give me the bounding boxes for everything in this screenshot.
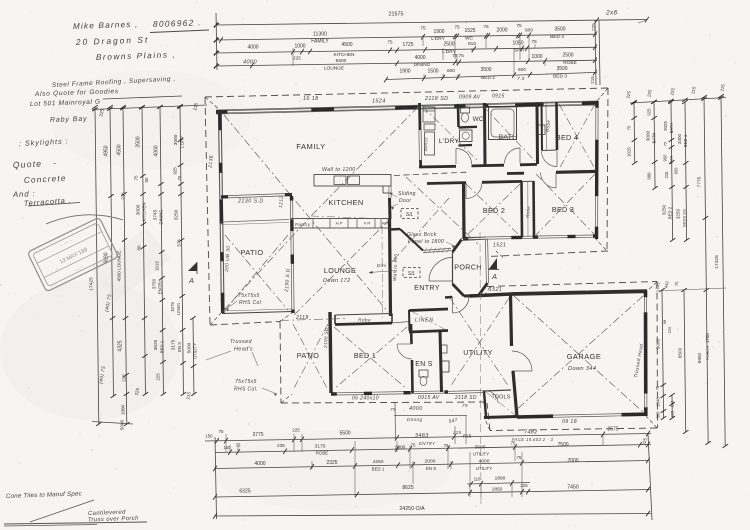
svg-text:LINEN: LINEN — [176, 303, 181, 315]
right band line 3000 bath 900 — [654, 102, 655, 188]
wall hall north - bedroom corridor — [419, 148, 537, 167]
svg-text:215: 215 — [590, 76, 595, 84]
svg-text:3500: 3500 — [136, 136, 142, 147]
svg-text:1025: 1025 — [627, 147, 632, 157]
handwritten owner name and phone — [73, 17, 209, 32]
svg-text:75: 75 — [517, 455, 522, 460]
note 75x75x5 RHS col lower with leader — [234, 379, 277, 396]
room label LOUNGE — [323, 266, 356, 284]
wall garage left lower / tools right — [513, 371, 517, 417]
right band line 7775 6950 — [704, 97, 708, 443]
left band line 17425 overall — [95, 107, 99, 424]
svg-text:1524: 1524 — [372, 99, 386, 105]
svg-text:Head's: Head's — [234, 347, 253, 353]
svg-text:DINING: DINING — [159, 209, 164, 225]
svg-text:235: 235 — [277, 443, 285, 448]
garage side dim line 5000 — [662, 290, 664, 418]
dim row 4000 2325 4250 BED1 2000 ENS 4000 UTILITY 7000 — [215, 461, 649, 469]
svg-text:75: 75 — [454, 25, 460, 31]
svg-text:75: 75 — [420, 26, 426, 32]
svg-text:LINEN: LINEN — [415, 318, 434, 324]
roof diagonals utility — [450, 298, 509, 387]
svg-text:75 75: 75 75 — [452, 53, 464, 58]
svg-text:3500: 3500 — [556, 66, 567, 72]
svg-text:225: 225 — [293, 55, 301, 60]
bed1 door gap line — [392, 322, 410, 324]
beds 2-3 robe — [522, 181, 535, 238]
svg-text:BED 2: BED 2 — [481, 75, 495, 81]
svg-text:600: 600 — [447, 68, 455, 74]
svg-text:1725: 1725 — [402, 42, 413, 48]
roof diagonals bed2 — [466, 184, 520, 236]
svg-text:3175: 3175 — [171, 339, 176, 350]
svg-text:75: 75 — [390, 407, 396, 412]
svg-text:KITCHEN: KITCHEN — [142, 203, 147, 222]
svg-text:75: 75 — [177, 175, 182, 180]
left dimension band — [89, 102, 208, 430]
tools closet — [484, 390, 517, 418]
roof dashed outline - lower patio — [280, 322, 281, 404]
short connector verticals in top band — [422, 35, 424, 46]
patio step edge line — [221, 220, 289, 223]
svg-text:Robe: Robe — [358, 318, 371, 324]
svg-text:EN S: EN S — [177, 342, 182, 352]
glass brick panel wall — [407, 232, 455, 253]
svg-text:1850: 1850 — [492, 487, 503, 493]
left datum of bottom band — [215, 437, 217, 519]
svg-text:BED 1: BED 1 — [354, 351, 376, 360]
wall bath right — [536, 103, 540, 165]
svg-text:4325: 4325 — [118, 340, 124, 351]
svg-text:225: 225 — [520, 483, 528, 488]
patio bottom rail — [222, 312, 292, 314]
wall garage bottom with door opening 0918 — [517, 414, 646, 425]
roof diagonals bath laundry — [422, 106, 535, 161]
svg-text:5500: 5500 — [336, 58, 347, 64]
dim row 6325 8625 1850 225 7450 — [215, 490, 651, 498]
svg-text:4000: 4000 — [154, 145, 160, 156]
svg-text:EN S: EN S — [426, 466, 436, 471]
handwritten cluster above bottom band — [394, 402, 397, 441]
svg-text:BATH: BATH — [669, 123, 674, 134]
section cut line A-A vertical — [480, 232, 481, 508]
svg-text:4950: 4950 — [104, 145, 110, 156]
wall garage right with windows — [644, 291, 648, 297]
bed4 robe — [542, 102, 558, 151]
bath fixtures - vertical tub and basin — [489, 104, 546, 140]
svg-text:2500: 2500 — [562, 53, 573, 59]
svg-text:L'DRY: L'DRY — [180, 136, 185, 148]
svg-text:5000: 5000 — [120, 419, 125, 430]
svg-text:BED 4: BED 4 — [683, 134, 688, 147]
note trussed heads with leader — [206, 339, 258, 366]
svg-text:Panel to 1800: Panel to 1800 — [408, 239, 444, 245]
svg-text:600: 600 — [518, 67, 526, 73]
svg-text:50: 50 — [144, 177, 149, 182]
left band line 4000 dining entry bed1 — [160, 107, 163, 394]
wall bed4-bed3 divider with door — [507, 171, 597, 188]
wall bed2 left — [462, 182, 466, 238]
svg-text:Bench: Bench — [423, 137, 429, 151]
roof dashed outline - garage wing — [487, 282, 657, 287]
svg-text:BED 2: BED 2 — [668, 206, 673, 219]
garage side dim line 6500 — [684, 290, 686, 432]
wall laundry left with sliding door — [390, 103, 422, 210]
svg-text:80: 80 — [137, 245, 142, 251]
wall family-patio with sliding door 2130SD — [221, 194, 292, 225]
wall hall-utility south with door — [445, 296, 471, 313]
svg-text:150: 150 — [205, 434, 213, 439]
svg-text:Wall to 1200: Wall to 1200 — [322, 167, 356, 173]
svg-text:1900: 1900 — [433, 29, 444, 35]
svg-text:4500: 4500 — [117, 144, 123, 155]
svg-text:06 240x10: 06 240x10 — [352, 396, 379, 402]
svg-text:UTILITY: UTILITY — [193, 343, 198, 359]
left band line 3500 kitchen — [142, 107, 145, 394]
kitchen ridge dash — [311, 216, 390, 219]
wall utility top / garage wing top — [470, 294, 511, 296]
svg-text:4000: 4000 — [479, 459, 490, 465]
flourish curve under terracotta — [46, 215, 123, 224]
svg-text:900: 900 — [663, 154, 668, 162]
svg-text:WC: WC — [465, 36, 474, 42]
roof overhang dashed outline - bedroom wing — [205, 88, 658, 431]
svg-text:ENTRY: ENTRY — [419, 441, 436, 446]
svg-text:21575: 21575 — [389, 12, 404, 18]
svg-text:2025: 2025 — [663, 120, 668, 131]
svg-text:BED 4: BED 4 — [550, 34, 564, 40]
svg-text:75x75x5: 75x75x5 — [238, 293, 260, 299]
svg-text:DINING: DINING — [414, 62, 431, 68]
exterior wall right of bedrooms with windows — [595, 101, 598, 239]
svg-text:75: 75 — [627, 125, 632, 130]
svg-text:4000: 4000 — [409, 406, 423, 412]
svg-text:SHR: SHR — [669, 156, 674, 165]
svg-text:1525: 1525 — [464, 28, 475, 34]
svg-text:WC: WC — [473, 116, 484, 123]
kitchen bench row with pantry — [291, 219, 390, 229]
lounge robe band — [295, 314, 392, 325]
dim row 4000 1000 225 1725 2500 L'DRY 915 1050 SHR 75 — [216, 47, 597, 53]
svg-text:Robe: Robe — [545, 119, 551, 132]
wall bed1-ens divider — [397, 324, 413, 393]
bed4 door arc — [542, 151, 558, 167]
svg-text:3750: 3750 — [152, 278, 157, 289]
svg-text:225: 225 — [292, 428, 300, 433]
roof diagonals linen tools — [411, 311, 515, 415]
svg-text:1000: 1000 — [395, 445, 406, 451]
svg-text:1890: 1890 — [495, 476, 506, 482]
svg-text:900: 900 — [647, 172, 652, 180]
svg-text:600: 600 — [525, 27, 533, 33]
dim row 150 75 3775 225 5500 - entry - 7482 2575 — [205, 434, 651, 442]
svg-text:75: 75 — [219, 429, 224, 434]
svg-text:1000: 1000 — [531, 54, 542, 60]
handwritten note cone tiles to manuf spec — [6, 490, 94, 522]
svg-text:7500: 7500 — [557, 442, 568, 448]
svg-text:RHS Col: RHS Col — [239, 300, 262, 306]
svg-text:L'DRY: L'DRY — [439, 138, 460, 145]
svg-text:ENTRY: ENTRY — [158, 280, 163, 295]
right band line 2025 bath shr 3250 bed2 — [671, 102, 673, 240]
svg-text:FACE 15.603 2 - 3: FACE 15.603 2 - 3 — [512, 437, 553, 442]
svg-text:3250: 3250 — [676, 208, 681, 219]
svg-text:3500: 3500 — [554, 26, 565, 32]
svg-text:3600: 3600 — [475, 445, 486, 451]
svg-text:2000: 2000 — [496, 28, 507, 34]
svg-text:11300: 11300 — [313, 32, 327, 38]
svg-text:Sliding: Sliding — [398, 191, 416, 197]
svg-text:2575: 2575 — [607, 427, 618, 433]
svg-text:925: 925 — [647, 108, 652, 116]
svg-text:7450: 7450 — [567, 485, 578, 491]
svg-text:UTILITY: UTILITY — [476, 466, 492, 471]
right band line 17425 overall — [721, 96, 725, 446]
svg-text:Robe: Robe — [525, 205, 531, 218]
svg-text:6500: 6500 — [678, 347, 683, 358]
svg-text:2130 S.D: 2130 S.D — [237, 199, 264, 205]
svg-text:Down 172: Down 172 — [323, 278, 350, 284]
svg-text:BEDS 2/3: BEDS 2/3 — [682, 208, 687, 226]
svg-text:2x6: 2x6 — [605, 10, 618, 17]
svg-text:RHS Col.: RHS Col. — [234, 387, 258, 393]
svg-text:A: A — [491, 272, 497, 281]
svg-text:17425: 17425 — [714, 255, 720, 269]
svg-text:2000: 2000 — [425, 459, 436, 465]
svg-text:225: 225 — [156, 373, 161, 381]
svg-text:7482: 7482 — [524, 430, 538, 436]
svg-text:16 18: 16 18 — [303, 96, 319, 102]
bottom ticks of left band — [92, 422, 133, 425]
svg-text:110: 110 — [474, 477, 481, 482]
svg-text:1050: 1050 — [512, 40, 523, 46]
laundry fixtures - cupboards and bench — [423, 107, 435, 155]
wall garage left upper — [511, 294, 512, 346]
svg-text:225: 225 — [121, 192, 126, 200]
svg-text:BED 1: BED 1 — [372, 467, 385, 472]
svg-text:7.5: 7.5 — [517, 76, 525, 82]
svg-text:4500: 4500 — [341, 42, 352, 48]
svg-text:4250: 4250 — [373, 459, 384, 465]
svg-text:BED 3: BED 3 — [553, 74, 567, 80]
svg-text:SHR: SHR — [514, 48, 525, 54]
bottom dimension band — [205, 402, 652, 520]
roof hip corner dashes — [205, 97, 221, 111]
skylight boxes S/L — [401, 209, 420, 278]
svg-text:1521: 1521 — [493, 243, 506, 249]
note dining arrow — [369, 263, 397, 274]
svg-text:225: 225 — [670, 410, 675, 417]
svg-text:4000: 4000 — [243, 60, 258, 66]
svg-text:BED 2: BED 2 — [483, 206, 505, 215]
svg-text:EN S: EN S — [415, 361, 433, 368]
svg-text:75: 75 — [516, 23, 522, 29]
svg-text:1521: 1521 — [489, 287, 502, 293]
note 75x75x5 RHS col upper with leader — [226, 293, 262, 311]
svg-text:Door: Door — [399, 198, 411, 204]
svg-text:75: 75 — [134, 175, 139, 181]
right datum lines of top band — [595, 20, 596, 85]
hall door arcs — [455, 149, 457, 165]
svg-text:3400: 3400 — [677, 133, 682, 144]
dim row 4000 DINING 75 75 1000 2500 ROBE — [216, 60, 597, 66]
wall hall-bed2 top with door — [427, 181, 522, 198]
svg-text:3500: 3500 — [480, 67, 491, 73]
svg-text:2700: 2700 — [705, 333, 710, 343]
svg-text:0915: 0915 — [492, 94, 505, 100]
svg-text:75x75x5: 75x75x5 — [235, 379, 257, 385]
svg-text:600: 600 — [674, 167, 679, 175]
utility south sliding door 2118SD — [448, 390, 484, 401]
svg-text:75: 75 — [462, 403, 468, 408]
svg-text:PORCH: PORCH — [454, 263, 481, 272]
ens fixtures - toilet and shower — [419, 345, 449, 386]
svg-text:75: 75 — [411, 443, 416, 448]
svg-text:24250 O/A: 24250 O/A — [399, 506, 425, 512]
exterior wall - top of house with windows — [216, 101, 597, 114]
svg-text:Glass Brick: Glass Brick — [407, 232, 437, 238]
svg-text:8006962 .: 8006962 . — [153, 17, 202, 29]
section marker A at porch — [488, 258, 499, 281]
svg-text:225: 225 — [452, 430, 462, 435]
svg-text:3483: 3483 — [415, 433, 429, 439]
svg-text:3175: 3175 — [315, 444, 326, 450]
svg-text:3250: 3250 — [662, 204, 667, 215]
wall garage top — [511, 291, 647, 294]
svg-text:Trussed: Trussed — [230, 339, 252, 345]
svg-text:3775: 3775 — [252, 432, 263, 438]
left datum line of top band — [216, 13, 217, 70]
wall corridor south at entry — [390, 229, 423, 251]
roof diagonals bed1 — [334, 327, 407, 389]
svg-text:FAMILY: FAMILY — [311, 39, 329, 45]
roof diagonals entry — [392, 177, 478, 262]
kitchen island bench with sink — [314, 167, 391, 193]
svg-text:GARAGE: GARAGE — [567, 352, 602, 361]
svg-text:500: 500 — [656, 411, 661, 419]
svg-text:TOOLS: TOOLS — [492, 395, 511, 401]
svg-text:2500: 2500 — [443, 41, 454, 47]
roof diagonals bed4 — [559, 104, 595, 169]
dim row 1900 1500 600 3500 BED 2 600 3500 BED 3 215 — [386, 72, 597, 79]
left band line 3000 ldry ens — [180, 107, 183, 394]
svg-text:225: 225 — [667, 326, 672, 333]
svg-text:17425: 17425 — [89, 277, 95, 291]
svg-text:75: 75 — [387, 40, 393, 45]
svg-text:LOUNGE: LOUNGE — [324, 266, 356, 275]
svg-text:75: 75 — [236, 443, 241, 448]
top connector line of left band — [92, 105, 207, 110]
received stamp rotated — [27, 217, 118, 292]
svg-text:75: 75 — [483, 24, 489, 30]
dashed ceiling line over hall entry — [394, 172, 470, 176]
right dimension band — [625, 83, 728, 448]
svg-text:7775: 7775 — [697, 176, 703, 187]
svg-text:4000: 4000 — [414, 55, 425, 61]
right datum of bottom band — [648, 434, 652, 520]
svg-text:BED 4: BED 4 — [556, 133, 578, 142]
section marker A left — [188, 262, 197, 271]
left band line 4950 6690 — [110, 107, 113, 396]
exterior wall - patio left with windows — [218, 110, 292, 314]
roof diagonals patio upper — [225, 235, 288, 310]
porch octagonal bay — [429, 237, 489, 296]
mid tick row of right band at garage top — [656, 288, 726, 291]
svg-text:1500: 1500 — [427, 68, 438, 74]
svg-text:75: 75 — [663, 141, 668, 146]
svg-text:09 18: 09 18 — [562, 419, 577, 425]
roof diagonals garage — [514, 296, 643, 412]
connector verticals of bottom band — [396, 441, 398, 452]
svg-text:Down 344: Down 344 — [568, 366, 596, 372]
left band short line utility — [192, 318, 195, 394]
svg-text:225: 225 — [664, 171, 669, 179]
svg-text:2325: 2325 — [326, 460, 337, 466]
svg-text:S/L: S/L — [406, 212, 414, 218]
svg-text:H.P: H.P — [336, 221, 343, 226]
handwritten note quote concrete and terracotta — [12, 158, 80, 208]
svg-text:PATIO: PATIO — [240, 248, 263, 257]
svg-text:455: 455 — [462, 434, 472, 440]
roof diagonals patio lower — [293, 324, 328, 390]
svg-text:3000: 3000 — [173, 134, 179, 145]
svg-text:BED 3: BED 3 — [552, 205, 574, 214]
svg-text:KITCHEN: KITCHEN — [333, 52, 355, 58]
dim row 24250 overall — [215, 514, 651, 517]
svg-text:225: 225 — [122, 374, 127, 382]
handwritten note steel frame — [30, 76, 182, 124]
dim 21575 overall width — [216, 20, 647, 26]
roof dashed outline - left side and patio — [205, 97, 210, 325]
svg-text:5500: 5500 — [339, 431, 350, 437]
svg-text:98: 98 — [662, 319, 667, 324]
svg-text:4000: 4000 — [247, 44, 258, 50]
svg-text:3000: 3000 — [646, 130, 651, 141]
svg-text:1000: 1000 — [294, 44, 305, 50]
svg-text:6325: 6325 — [239, 489, 250, 495]
svg-text:5000: 5000 — [656, 338, 661, 349]
svg-text:7000: 7000 — [567, 458, 578, 464]
svg-text:575: 575 — [177, 239, 182, 247]
roof diagonals family-lounge — [224, 107, 418, 315]
garage door swing into utility — [512, 351, 532, 371]
svg-text:ROBE: ROBE — [316, 451, 329, 456]
svg-text:75: 75 — [511, 441, 516, 446]
svg-text:75: 75 — [531, 39, 537, 45]
svg-text:S/L: S/L — [408, 271, 416, 277]
centre dash line through lounge — [381, 226, 384, 318]
svg-text:0909 AV: 0909 AV — [459, 95, 481, 101]
svg-text:Raby Bay: Raby Bay — [50, 116, 88, 124]
svg-text:Dining: Dining — [407, 417, 422, 422]
svg-text:A: A — [188, 276, 194, 285]
top connector of right band — [630, 98, 726, 104]
centre dash-dot line at patio — [280, 319, 346, 321]
svg-text:3250: 3250 — [174, 209, 180, 220]
svg-text:1015: 1015 — [155, 260, 160, 271]
svg-text:3625: 3625 — [153, 339, 159, 350]
dim row 150 75 235 3175 ROBE 1000 75 75 3600 UTILITY 75 7500 225 — [215, 445, 651, 453]
svg-text:1900: 1900 — [399, 69, 410, 75]
svg-text:8625: 8625 — [402, 485, 413, 491]
svg-text:F R: F R — [364, 221, 370, 226]
svg-text:1000: 1000 — [121, 404, 126, 415]
wall laundry-bath divider — [483, 103, 487, 165]
porch entry door arc — [429, 280, 453, 282]
svg-text:BED 1: BED 1 — [160, 340, 165, 353]
svg-text:6950: 6950 — [697, 352, 702, 363]
wc cubicle with toilet — [458, 104, 484, 128]
